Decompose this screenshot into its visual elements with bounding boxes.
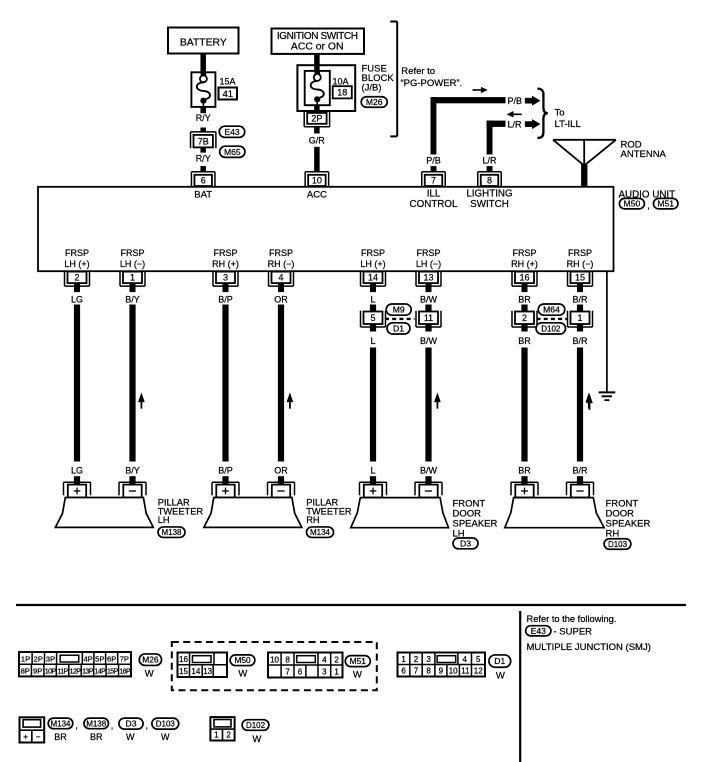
svg-text:W: W — [252, 734, 261, 745]
svg-text:M134: M134 — [50, 719, 71, 728]
svg-text:RH: RH — [306, 515, 319, 525]
svg-text:M50: M50 — [234, 655, 251, 665]
svg-text:15: 15 — [575, 273, 585, 283]
svg-text:13P: 13P — [82, 669, 94, 676]
svg-text:OR: OR — [274, 294, 288, 304]
svg-text:16: 16 — [179, 655, 188, 664]
svg-text:12P: 12P — [70, 669, 82, 676]
svg-text:2: 2 — [334, 655, 339, 664]
svg-text:B/Y: B/Y — [125, 466, 140, 476]
svg-text:(J/B): (J/B) — [362, 83, 382, 94]
svg-text:9: 9 — [439, 667, 444, 676]
svg-text:M65: M65 — [224, 147, 241, 157]
svg-text:14P: 14P — [95, 669, 107, 676]
svg-text:ANTENNA: ANTENNA — [621, 149, 667, 160]
svg-text:3: 3 — [426, 655, 431, 664]
svg-text:G/R: G/R — [309, 136, 326, 146]
svg-text:OR: OR — [274, 466, 288, 476]
svg-text:5P: 5P — [95, 655, 104, 664]
svg-text:E43: E43 — [531, 626, 547, 636]
svg-text:1: 1 — [214, 730, 219, 739]
svg-text:8: 8 — [426, 667, 431, 676]
svg-text:11: 11 — [424, 313, 433, 323]
svg-text:D102: D102 — [541, 324, 561, 333]
svg-text:4P: 4P — [83, 655, 92, 664]
svg-text:13: 13 — [423, 273, 433, 283]
svg-text:D1: D1 — [393, 323, 404, 333]
svg-text:Refer to the following.: Refer to the following. — [527, 614, 617, 624]
svg-text:M138: M138 — [86, 719, 107, 728]
svg-text:D103: D103 — [608, 540, 628, 549]
svg-text:5: 5 — [370, 313, 375, 323]
svg-text:W: W — [496, 671, 505, 682]
svg-text:B/R: B/R — [572, 336, 588, 346]
svg-text:10: 10 — [312, 176, 322, 186]
svg-text:11P: 11P — [57, 669, 68, 676]
svg-text:15A: 15A — [220, 76, 236, 86]
svg-text:1: 1 — [401, 655, 406, 664]
svg-text:M26: M26 — [142, 655, 159, 665]
svg-text:LH (+): LH (+) — [360, 259, 385, 269]
svg-text:5: 5 — [476, 655, 481, 664]
svg-text:M51: M51 — [657, 199, 674, 209]
svg-text:2: 2 — [226, 730, 231, 739]
svg-text:FRSP: FRSP — [65, 248, 89, 258]
svg-text:1: 1 — [130, 273, 135, 283]
svg-text:10P: 10P — [45, 669, 57, 676]
svg-text:6: 6 — [401, 667, 406, 676]
svg-text:B/R: B/R — [572, 294, 588, 304]
svg-text:LH: LH — [158, 515, 170, 525]
svg-text:ACC or ON: ACC or ON — [291, 42, 344, 53]
svg-text:6: 6 — [201, 176, 206, 186]
svg-text:IGNITION SWITCH: IGNITION SWITCH — [277, 31, 358, 42]
svg-text:4: 4 — [322, 655, 327, 664]
svg-text:6P: 6P — [107, 655, 116, 664]
svg-text:,: , — [111, 721, 114, 731]
svg-text:BR: BR — [518, 466, 531, 476]
svg-text:2P: 2P — [34, 655, 43, 664]
svg-text:BR: BR — [54, 732, 67, 742]
svg-text:R/Y: R/Y — [196, 113, 211, 123]
svg-text:13: 13 — [203, 667, 212, 676]
svg-text:LT-ILL: LT-ILL — [555, 119, 581, 130]
svg-text:7B: 7B — [198, 136, 209, 146]
svg-text:14: 14 — [191, 667, 200, 676]
svg-text:11: 11 — [461, 667, 470, 676]
svg-text:L: L — [370, 466, 375, 476]
svg-text:To: To — [555, 108, 565, 119]
svg-text:RH: RH — [606, 528, 620, 539]
svg-text:M50: M50 — [624, 199, 641, 209]
svg-text:3: 3 — [223, 273, 228, 283]
svg-text:D3: D3 — [460, 538, 471, 548]
svg-text:M64: M64 — [543, 305, 560, 315]
svg-text:,: , — [75, 721, 78, 731]
svg-text:LG: LG — [71, 294, 83, 304]
svg-text:FRSP: FRSP — [361, 248, 385, 258]
svg-text:2: 2 — [522, 313, 527, 323]
svg-text:RH (+): RH (+) — [212, 259, 239, 269]
svg-text:W: W — [161, 732, 170, 742]
svg-text:M138: M138 — [161, 528, 182, 537]
svg-text:1P: 1P — [21, 655, 30, 664]
svg-text:D1: D1 — [494, 656, 505, 666]
svg-text:1: 1 — [334, 668, 339, 677]
svg-text:B/P: B/P — [218, 466, 233, 476]
svg-text:D3: D3 — [126, 719, 137, 729]
svg-text:L: L — [370, 336, 375, 346]
svg-text:W: W — [353, 670, 362, 681]
svg-text:2: 2 — [414, 655, 419, 664]
svg-text:2: 2 — [74, 273, 79, 283]
svg-text:12: 12 — [474, 667, 483, 676]
svg-text:10A: 10A — [333, 76, 349, 86]
svg-text:M9: M9 — [393, 305, 405, 315]
svg-text:+: + — [23, 732, 28, 741]
svg-text:7: 7 — [431, 176, 436, 186]
svg-text:FRSP: FRSP — [120, 248, 144, 258]
svg-text:M51: M51 — [350, 656, 367, 666]
svg-text:41: 41 — [223, 89, 234, 100]
svg-text:SWITCH: SWITCH — [470, 199, 509, 210]
svg-text:LH (−): LH (−) — [120, 259, 145, 269]
svg-text:“PG-POWER”.: “PG-POWER”. — [401, 78, 463, 89]
svg-text:Refer to: Refer to — [401, 66, 435, 77]
svg-text:3P: 3P — [46, 655, 55, 664]
svg-text:RH (+): RH (+) — [511, 259, 538, 269]
svg-text:16P: 16P — [119, 669, 131, 676]
svg-text:16: 16 — [519, 273, 529, 283]
svg-text:15: 15 — [179, 667, 188, 676]
svg-text:CONTROL: CONTROL — [410, 199, 458, 210]
svg-text:L: L — [370, 294, 375, 304]
svg-text:M134: M134 — [310, 528, 331, 537]
svg-text:8: 8 — [285, 655, 290, 664]
svg-text:FRSP: FRSP — [512, 248, 536, 258]
svg-text:7: 7 — [414, 667, 419, 676]
svg-text:10: 10 — [449, 667, 458, 676]
svg-text:3: 3 — [322, 668, 327, 677]
svg-text:B/P: B/P — [218, 294, 233, 304]
svg-text:14: 14 — [368, 273, 378, 283]
svg-text:6: 6 — [298, 668, 303, 677]
svg-text:D103: D103 — [156, 719, 176, 728]
svg-text:LG: LG — [71, 466, 83, 476]
svg-text:LH (−): LH (−) — [416, 259, 441, 269]
svg-text:4: 4 — [462, 655, 467, 664]
svg-text:L/R: L/R — [482, 156, 497, 166]
svg-text:R/Y: R/Y — [196, 154, 211, 164]
svg-text:4: 4 — [278, 273, 283, 283]
svg-text:BAT: BAT — [194, 190, 212, 201]
svg-text:W: W — [126, 732, 135, 742]
svg-text:E43: E43 — [224, 127, 240, 137]
svg-text:B/W: B/W — [420, 466, 438, 476]
svg-text:B/R: B/R — [572, 466, 588, 476]
svg-text:W: W — [145, 668, 154, 679]
svg-text:2P: 2P — [311, 114, 322, 124]
svg-text:FRSP: FRSP — [416, 248, 440, 258]
svg-text:FRSP: FRSP — [213, 248, 237, 258]
svg-text:RH (−): RH (−) — [268, 259, 295, 269]
svg-text:,: , — [146, 721, 149, 731]
svg-text:18: 18 — [337, 87, 347, 97]
svg-text:BR: BR — [90, 732, 103, 742]
svg-text:15P: 15P — [107, 669, 119, 676]
svg-text:LH (+): LH (+) — [64, 259, 89, 269]
svg-text:MULTIPLE JUNCTION (SMJ): MULTIPLE JUNCTION (SMJ) — [527, 642, 651, 653]
svg-text:8: 8 — [487, 176, 492, 186]
svg-text:,: , — [647, 201, 650, 212]
svg-text:B/W: B/W — [420, 336, 438, 346]
svg-text:−: − — [36, 732, 41, 741]
svg-text:8P: 8P — [21, 667, 30, 676]
svg-text:FRSP: FRSP — [269, 248, 293, 258]
svg-text:- SUPER: - SUPER — [554, 626, 593, 637]
svg-text:BATTERY: BATTERY — [180, 37, 227, 48]
svg-text:ACC: ACC — [307, 190, 327, 201]
svg-text:L/R: L/R — [508, 119, 523, 129]
svg-text:D102: D102 — [246, 721, 266, 730]
svg-text:1: 1 — [577, 313, 582, 323]
svg-text:RH (−): RH (−) — [567, 259, 594, 269]
svg-text:7: 7 — [285, 668, 290, 677]
svg-text:10: 10 — [270, 655, 279, 664]
svg-text:BR: BR — [518, 336, 531, 346]
svg-text:B/Y: B/Y — [125, 294, 140, 304]
svg-text:7P: 7P — [120, 655, 129, 664]
svg-text:BR: BR — [518, 294, 531, 304]
svg-text:W: W — [238, 668, 247, 679]
svg-text:M26: M26 — [366, 97, 383, 107]
svg-text:9P: 9P — [33, 667, 42, 676]
svg-text:P/B: P/B — [508, 96, 523, 106]
svg-text:B/W: B/W — [420, 294, 438, 304]
svg-text:FRSP: FRSP — [568, 248, 592, 258]
